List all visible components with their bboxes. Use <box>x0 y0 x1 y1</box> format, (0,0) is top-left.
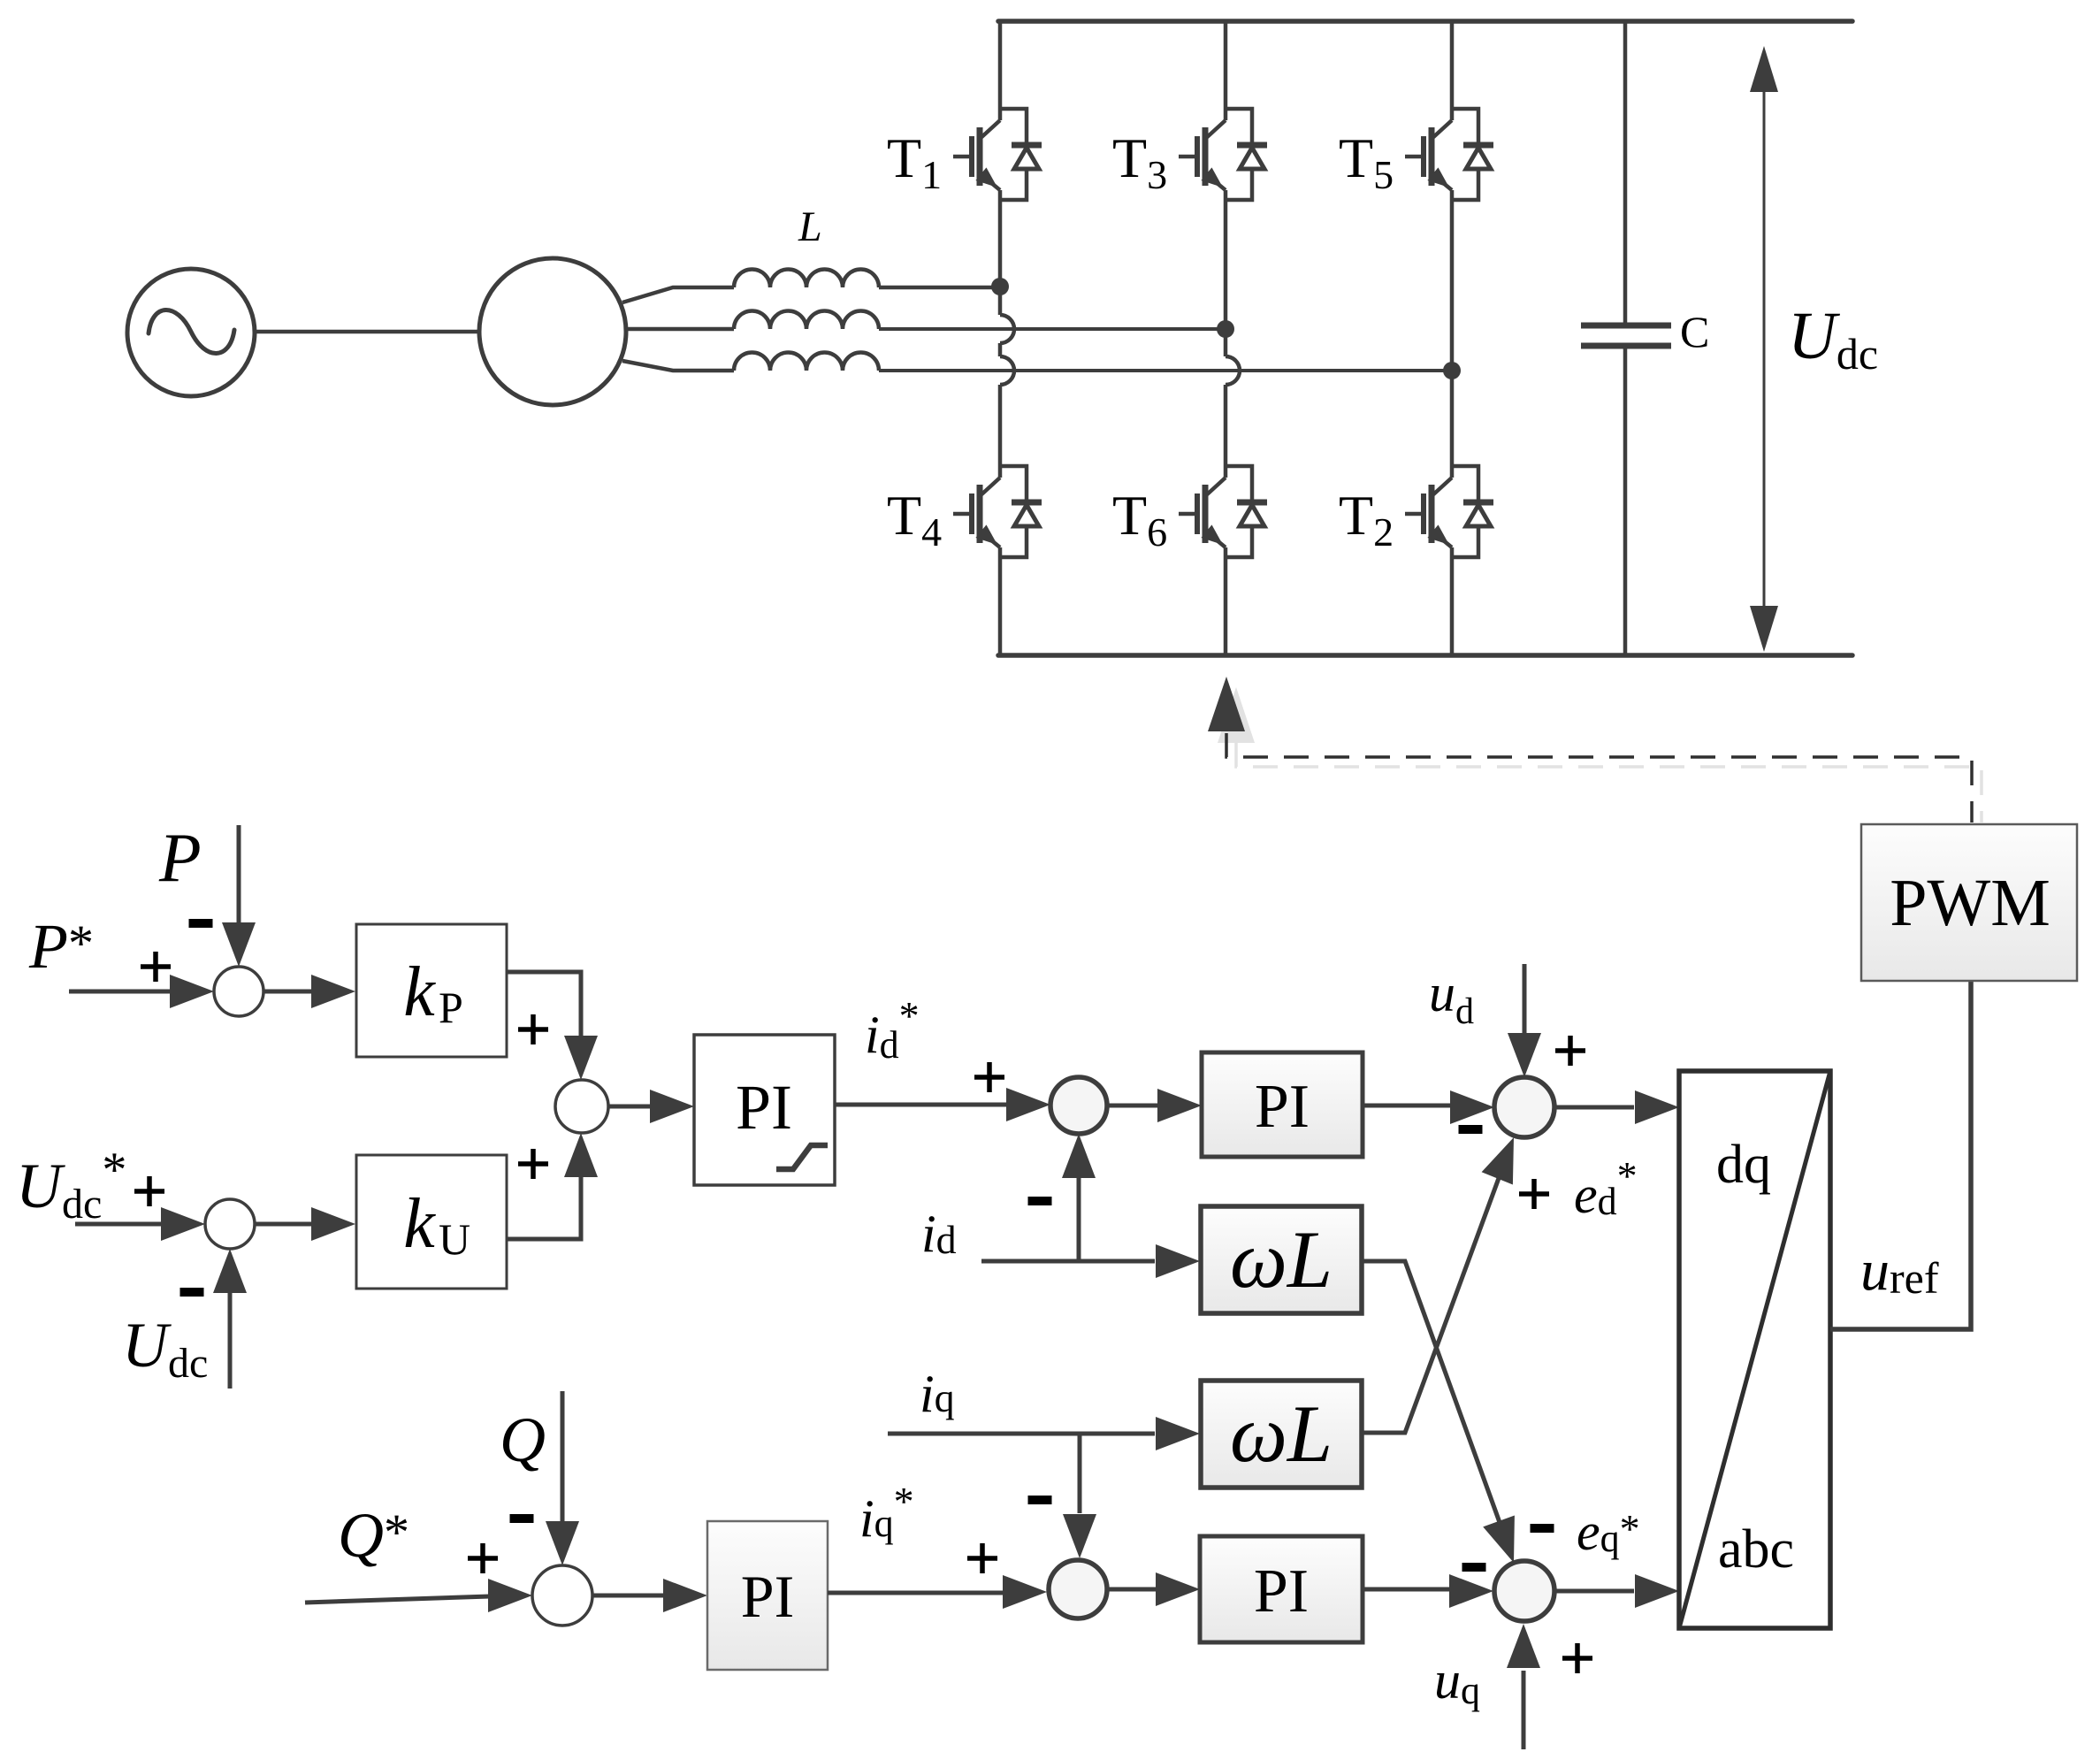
PWM gate drive dashed wire shadow <box>1236 743 1982 822</box>
wire P feedback input <box>237 825 241 924</box>
svg-text:k: k <box>403 1185 436 1263</box>
wire capacitor top lead <box>1623 21 1628 325</box>
svg-text:k: k <box>403 953 436 1031</box>
wire P* input <box>69 990 172 994</box>
plus sign uq <box>1562 1643 1592 1673</box>
svg-text:PI: PI <box>736 1072 792 1143</box>
summing junction d current <box>1050 1077 1107 1134</box>
wire leg C upper (rail to T5) <box>1450 21 1455 120</box>
PWM gate drive arrow <box>1208 677 1245 731</box>
capacitor C <box>1581 323 1671 329</box>
minus sign PI d <box>1459 1125 1483 1134</box>
plus sign id* <box>974 1062 1004 1092</box>
PI controller Q <box>707 1521 828 1670</box>
wire phase B fan-out <box>625 327 734 332</box>
wire sum 8 to PI q <box>1107 1588 1157 1592</box>
wire Q feedback input <box>561 1391 565 1521</box>
svg-text:PI: PI <box>1254 1557 1309 1626</box>
plus sign cross coupling d <box>1519 1179 1549 1209</box>
wire iq branch to sum 8 <box>1078 1434 1082 1513</box>
coordinate transform block dq/abc <box>1679 1071 1830 1628</box>
wire phase B to node B <box>879 327 1226 331</box>
wire Udc sum to kU <box>255 1222 313 1227</box>
wire iq feedback <box>888 1432 1155 1436</box>
svg-text:PI: PI <box>741 1563 794 1630</box>
wire capacitor bottom lead <box>1623 346 1628 655</box>
wire AC source to grid circle <box>255 330 479 334</box>
transistor T4 (IGBT with antiparallel diode) <box>953 466 1042 557</box>
minus sign Udc <box>180 1288 204 1297</box>
wire PI q to sum 6 <box>1363 1588 1451 1592</box>
summing junction Udc <box>205 1199 255 1249</box>
svg-text:Q*: Q* <box>338 1500 409 1571</box>
wire id branch to sum 4 <box>1077 1178 1081 1261</box>
summing junction P <box>214 967 263 1016</box>
wire omega-L iq to sum ed* (diagonal) <box>1362 1154 1508 1433</box>
wire leg B T6 to negative rail <box>1224 547 1228 655</box>
wire iq* to sum 8 <box>828 1591 1004 1595</box>
wire leg B T3 to node B <box>1224 190 1228 329</box>
wire Q* input <box>305 1596 490 1603</box>
wire phase C fan-out <box>622 361 734 371</box>
plus sign Udc* <box>134 1176 164 1206</box>
gain block kU <box>356 1155 507 1289</box>
plus sign Q* <box>468 1543 498 1573</box>
wire omega-L id to sum eq* (diagonal) <box>1362 1261 1508 1547</box>
wire uq input <box>1522 1671 1526 1749</box>
inductor L phase A <box>734 269 879 287</box>
minus sign iq <box>1028 1496 1052 1504</box>
plus sign kP path <box>518 1014 548 1044</box>
summing junction q current <box>1049 1560 1107 1618</box>
wire leg A upper (rail to T1) <box>998 21 1003 120</box>
wire PI d to sum 5 <box>1363 1104 1452 1108</box>
wire leg C T2 to negative rail <box>1450 547 1455 655</box>
DC bus positive rail <box>998 19 1852 24</box>
transistor T3 (IGBT with antiparallel diode) <box>1179 109 1267 200</box>
wire leg B node B to T6 (hop over phase C) <box>1224 329 1228 356</box>
wire id feedback <box>981 1259 1155 1264</box>
node C junction dot <box>1443 362 1461 379</box>
wire id* to sum 4 <box>835 1103 1008 1107</box>
svg-text:PI: PI <box>1255 1073 1310 1141</box>
node A junction dot <box>991 278 1009 295</box>
minus sign PI q <box>1462 1563 1486 1572</box>
PI controller q axis <box>1200 1536 1363 1642</box>
svg-text:C: C <box>1680 307 1709 356</box>
wire sum 2 to PI limiter <box>608 1105 652 1109</box>
wire phase A fan-out <box>622 287 734 302</box>
svg-text:ωL: ωL <box>1230 1214 1333 1304</box>
wire Udc feedback input <box>228 1293 233 1389</box>
summing junction ed* <box>1494 1077 1554 1137</box>
wire phase A to node A <box>879 286 1000 290</box>
cross coupling block omega-L (id) <box>1201 1206 1362 1313</box>
wire uref to PWM <box>1830 982 1971 1329</box>
plus sign iq* <box>967 1543 997 1573</box>
AC source <box>127 269 255 396</box>
wire leg C node C to T2 <box>1450 371 1455 478</box>
PWM gate drive dashed wire <box>1226 733 1972 822</box>
summing junction id* <box>555 1080 608 1133</box>
wire ud input <box>1523 964 1527 1035</box>
wire kU output to sum 2 <box>507 1175 581 1239</box>
PI controller d axis <box>1202 1052 1363 1157</box>
cross coupling block omega-L (iq) <box>1201 1381 1362 1488</box>
svg-text:P: P <box>158 819 202 896</box>
gain block kP <box>356 924 507 1057</box>
wire Q sum to PI Q <box>592 1594 665 1598</box>
plus sign kU path <box>518 1149 548 1179</box>
wire leg A T4 to negative rail <box>998 547 1003 655</box>
PWM block <box>1861 824 2077 981</box>
PWM gate drive shadow arrow <box>1218 687 1255 743</box>
minus sign P <box>189 919 213 928</box>
wire ed* to dq block <box>1554 1106 1634 1110</box>
wire kP output to sum 2 <box>507 972 581 1037</box>
wire P sum to kP <box>263 990 313 994</box>
minus sign id <box>1028 1197 1052 1205</box>
svg-text:PWM: PWM <box>1890 866 2050 940</box>
svg-text:ωL: ωL <box>1230 1389 1333 1479</box>
svg-text:L: L <box>798 203 822 250</box>
PI controller with saturation <box>694 1035 835 1185</box>
svg-text:P*: P* <box>28 911 94 982</box>
grid/transformer circle <box>479 258 626 405</box>
summing junction Q <box>532 1565 592 1626</box>
inductor L phase C <box>734 353 879 371</box>
wire leg A T1 to node A <box>998 190 1003 287</box>
svg-text:dq: dq <box>1716 1135 1771 1195</box>
DC bus negative rail <box>998 653 1852 658</box>
wire leg B upper (rail to T3) <box>1224 21 1228 120</box>
plus sign ud <box>1555 1036 1585 1066</box>
wire sum 4 to PI d <box>1107 1104 1157 1108</box>
wire leg A node A to T4 (hops over phases B,C) <box>998 287 1003 315</box>
wire Udc* input <box>75 1222 163 1227</box>
transistor T5 (IGBT with antiparallel diode) <box>1405 109 1493 200</box>
svg-text:abc: abc <box>1718 1519 1794 1580</box>
minus sign cross coupling q <box>1531 1524 1554 1533</box>
minus sign Q <box>510 1514 534 1523</box>
node B junction dot <box>1217 320 1234 338</box>
inductor L phase B <box>734 311 879 330</box>
transistor T2 (IGBT with antiparallel diode) <box>1405 466 1493 557</box>
wire phase C to node C <box>879 369 1452 372</box>
wire leg C T5 to node C <box>1450 190 1455 371</box>
svg-text:P: P <box>439 983 463 1032</box>
svg-text:U: U <box>439 1214 470 1264</box>
svg-text:Q: Q <box>500 1404 546 1475</box>
plus sign P* <box>141 952 171 982</box>
wire eq* to dq block <box>1555 1589 1634 1594</box>
summing junction eq* <box>1494 1561 1554 1621</box>
Udc measurement double arrow <box>1750 46 1778 652</box>
transistor T6 (IGBT with antiparallel diode) <box>1179 466 1267 557</box>
transistor T1 (IGBT with antiparallel diode) <box>953 109 1042 200</box>
